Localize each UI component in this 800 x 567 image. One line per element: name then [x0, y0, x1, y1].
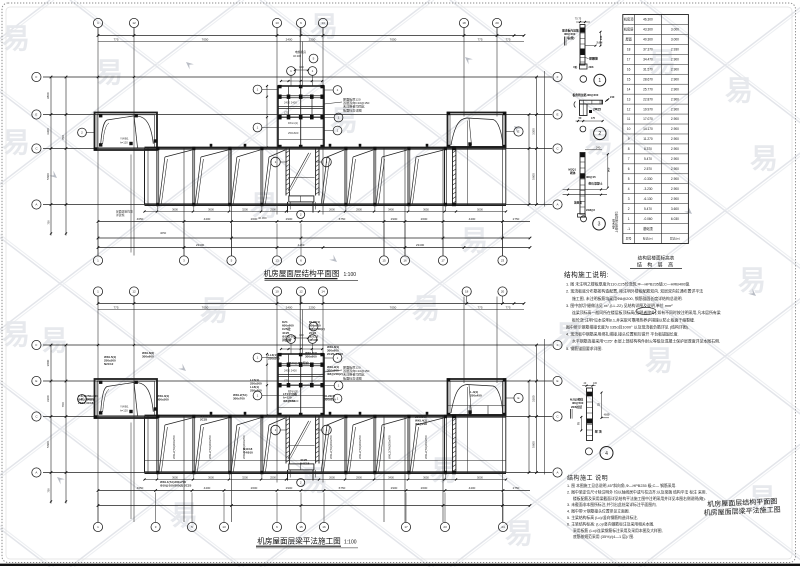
- svg-text:2500: 2500: [270, 207, 276, 211]
- svg-text:10: 10: [275, 290, 279, 294]
- svg-text:3800: 3800: [46, 92, 50, 99]
- svg-text:2900: 2900: [286, 217, 293, 221]
- svg-text:5. 钢筋锚固要求详图.: 5. 钢筋锚固要求详图.: [566, 346, 603, 351]
- detail 1 annotations: [562, 29, 603, 70]
- svg-text:2.900: 2.900: [671, 157, 679, 161]
- svg-text:易: 易: [645, 345, 673, 376]
- svg-text:3200: 3200: [242, 475, 248, 479]
- svg-text:6.030: 6.030: [671, 217, 679, 221]
- top plan title: [264, 268, 358, 280]
- bottom plan: right axis circles: [545, 339, 563, 477]
- top plan: right dimension chains: [528, 76, 538, 206]
- bottom plan title: [256, 536, 358, 548]
- svg-text:WKL2(7A)300x700: WKL2(7A)300x700: [208, 435, 212, 459]
- detail 1 section: [575, 17, 590, 66]
- svg-text:WKL2(7A)300x700: WKL2(7A)300x700: [388, 435, 392, 459]
- svg-text:A: A: [556, 203, 558, 207]
- svg-text:2600: 2600: [329, 207, 335, 211]
- notes block 1 title: [564, 270, 609, 279]
- svg-text:2.900: 2.900: [671, 187, 679, 191]
- top plan: vertical grid lines: [98, 28, 503, 256]
- top plan: tower head note: [293, 50, 306, 58]
- svg-text:700: 700: [61, 402, 65, 407]
- svg-text:150: 150: [599, 35, 603, 40]
- svg-text:Φ8@15: Φ8@15: [586, 175, 596, 179]
- svg-text:Φ8@200: Φ8@200: [415, 422, 427, 426]
- svg-text:2400: 2400: [286, 37, 293, 41]
- notes block 1 body: [566, 282, 721, 351]
- svg-text:3600: 3600: [172, 475, 178, 479]
- svg-text:板面标高详图: 板面标高详图: [343, 375, 362, 380]
- svg-text:23: 23: [501, 259, 505, 263]
- svg-text:12: 12: [132, 290, 136, 294]
- bottom plan: core stair walls in band: [271, 417, 332, 487]
- svg-text:8: 8: [628, 147, 630, 151]
- bottom plan: top axis circles row: [93, 287, 507, 304]
- detail 2 annotations: [572, 93, 615, 122]
- svg-text:A: A: [556, 471, 558, 475]
- svg-text:4400: 4400: [204, 217, 211, 221]
- svg-text:5: 5: [628, 177, 630, 181]
- floor elevation table: [615, 15, 689, 244]
- svg-text:11.270: 11.270: [643, 137, 653, 141]
- svg-text:2.570: 2.570: [644, 167, 652, 171]
- svg-text:1. 图 本图施工见总说明,45°斜向角,Φ—HPB235: 1. 图 本图施工见总说明,45°斜向角,Φ—HPB235 级;C— 钢筋采用.: [567, 483, 676, 488]
- svg-text:2400: 2400: [286, 305, 293, 309]
- svg-text:75 75: 75 75: [575, 17, 582, 21]
- svg-text:34.470: 34.470: [643, 58, 653, 62]
- notes block 2 body: [567, 483, 707, 539]
- svg-text:23: 23: [443, 525, 447, 529]
- svg-text:4400: 4400: [204, 486, 211, 490]
- svg-text:标高(m): 标高(m): [643, 236, 653, 241]
- svg-text:4: 4: [605, 451, 608, 457]
- detail 4 bubbles: [585, 447, 613, 460]
- svg-text:7050: 7050: [202, 37, 209, 41]
- svg-text:18: 18: [465, 290, 469, 294]
- svg-text:4400: 4400: [469, 217, 476, 221]
- svg-text:14: 14: [627, 87, 631, 91]
- detail 3 bubbles: [581, 216, 606, 230]
- svg-text:易: 易: [738, 265, 766, 296]
- svg-text:18: 18: [462, 21, 466, 25]
- bottom plan: band right wall and empty room: [452, 415, 456, 474]
- detail 4 annotations: [570, 392, 610, 434]
- svg-text:16: 16: [322, 525, 326, 529]
- svg-text:5600: 5600: [532, 173, 536, 180]
- bottom plan: band top rebar marks: [210, 412, 472, 417]
- svg-text:800: 800: [299, 333, 304, 337]
- svg-text:施工图, 未注明板筋均采用Φ8@200, 钢筋锚固长度详结构: 施工图, 未注明板筋均采用Φ8@200, 钢筋锚固长度详结构总说明.: [572, 296, 683, 301]
- svg-text:3600: 3600: [172, 207, 178, 211]
- svg-text:A: A: [35, 471, 37, 475]
- svg-text:23400: 23400: [196, 243, 205, 247]
- svg-text:梁 顶: 梁 顶: [594, 429, 602, 434]
- svg-text:h=120: h=120: [120, 409, 128, 413]
- top plan: bottom axis circles row: [93, 224, 507, 266]
- svg-text:5.470: 5.470: [644, 207, 652, 211]
- svg-text:详建施: 详建施: [116, 213, 125, 217]
- top plan: top dimension lines: [97, 34, 526, 41]
- svg-text:43.300: 43.300: [643, 28, 653, 32]
- svg-text:9: 9: [628, 137, 630, 141]
- svg-text:20: 20: [495, 21, 499, 25]
- svg-text:20: 20: [501, 290, 505, 294]
- svg-text:46.300: 46.300: [643, 18, 653, 22]
- svg-text:14.170: 14.170: [643, 127, 653, 131]
- svg-text:3200: 3200: [242, 207, 248, 211]
- bottom plan: central machine-room core walls: [266, 348, 324, 417]
- svg-text:300x700: 300x700: [233, 397, 245, 401]
- svg-text:17: 17: [441, 259, 445, 263]
- svg-text:2400 2400: 2400 2400: [284, 101, 297, 105]
- svg-text:775: 775: [477, 37, 482, 41]
- svg-text:2.900: 2.900: [671, 127, 679, 131]
- svg-text:层高(m): 层高(m): [670, 236, 680, 241]
- svg-text:4. 图中带‘X’钢筋接头位置参见立面图.: 4. 图中带‘X’钢筋接头位置参见立面图.: [567, 509, 630, 514]
- svg-text:300x500: 300x500: [157, 398, 169, 402]
- sheet bottom heavy border: [0, 564, 800, 566]
- svg-text:18: 18: [627, 48, 631, 52]
- svg-text:F: F: [35, 343, 37, 347]
- svg-text:7050: 7050: [390, 305, 397, 309]
- svg-text:3300: 3300: [532, 395, 536, 402]
- detail 1 bubbles: [580, 74, 606, 86]
- svg-text:46.300: 46.300: [258, 216, 267, 220]
- bottom plan: core top stem lines: [291, 297, 313, 355]
- svg-text:LT1: LT1: [284, 111, 289, 115]
- svg-text:16: 16: [627, 67, 631, 71]
- svg-text:13: 13: [275, 259, 279, 263]
- svg-text:13: 13: [222, 525, 226, 529]
- svg-text:40.300: 40.300: [643, 38, 653, 42]
- svg-text:2.900: 2.900: [671, 147, 679, 151]
- svg-text:37.370: 37.370: [643, 48, 653, 52]
- svg-text:17: 17: [627, 58, 631, 62]
- svg-text:17.070: 17.070: [643, 117, 653, 121]
- svg-text:2600: 2600: [421, 217, 428, 221]
- svg-text:Φ10@150双向: Φ10@150双向: [289, 360, 309, 365]
- svg-text:-6.130: -6.130: [643, 197, 652, 201]
- svg-text:易: 易: [40, 325, 68, 356]
- svg-text:Φ8@200: Φ8@200: [587, 93, 599, 97]
- svg-text:3.000: 3.000: [671, 28, 679, 32]
- svg-text:100: 100: [593, 382, 598, 385]
- notes block 2 title: [567, 474, 608, 482]
- watermark arrow icons: [49, 54, 758, 484]
- svg-text:24: 24: [501, 525, 505, 529]
- svg-text:3300: 3300: [532, 128, 536, 135]
- svg-text:3800: 3800: [46, 359, 50, 366]
- svg-text:1: 1: [598, 78, 601, 84]
- svg-text:3: 3: [628, 197, 630, 201]
- svg-text:3400: 3400: [388, 207, 394, 211]
- svg-text:易: 易: [95, 57, 123, 88]
- svg-text:基础顶: 基础顶: [643, 226, 653, 231]
- svg-text:4650: 4650: [137, 486, 144, 490]
- svg-text:15: 15: [382, 259, 386, 263]
- svg-text:3.000: 3.000: [671, 38, 679, 42]
- svg-text:易: 易: [505, 518, 533, 549]
- svg-text:DKL1(1): DKL1(1): [288, 121, 298, 125]
- svg-text:700: 700: [47, 488, 51, 493]
- svg-text:2.900: 2.900: [671, 197, 679, 201]
- bottom plan: left axis circles: [32, 340, 41, 477]
- svg-text:细石混凝土: 细石混凝土: [588, 181, 603, 185]
- svg-text:U形: U形: [573, 65, 578, 69]
- svg-text:-0.330: -0.330: [643, 177, 652, 181]
- svg-text:46.300: 46.300: [293, 54, 301, 58]
- svg-text:3.600: 3.600: [671, 207, 679, 211]
- svg-text:23400: 23400: [416, 243, 425, 247]
- svg-text:900: 900: [606, 167, 610, 172]
- bottom plan: band column dividers: [156, 415, 447, 479]
- top plan: third dim row: [97, 243, 532, 249]
- svg-text:h=120: h=120: [120, 141, 128, 145]
- top plan: band right wall and empty room: [452, 147, 456, 206]
- svg-text:2C25+2C22: 2C25+2C22: [327, 352, 343, 356]
- svg-text:5600: 5600: [46, 441, 50, 448]
- svg-text:1. 图 未注明之楼板厚度为110,C25砼浇筑;Φ—HPB: 1. 图 未注明之楼板厚度为110,C25砼浇筑;Φ—HPB235级;C—HRB…: [566, 282, 690, 287]
- svg-text:3650: 3650: [423, 475, 429, 479]
- svg-text:墙(梁): 墙(梁): [567, 36, 575, 40]
- svg-text:240: 240: [596, 146, 601, 150]
- svg-text:2250: 2250: [309, 305, 316, 309]
- svg-text:775: 775: [113, 37, 118, 41]
- bottom plan: bottom dimension lines: [97, 475, 532, 507]
- svg-text:4650: 4650: [137, 217, 144, 221]
- svg-text:775: 775: [505, 37, 510, 41]
- top plan: left axis circles: [32, 72, 41, 209]
- svg-text:2.930: 2.930: [671, 48, 679, 52]
- svg-text:1:100: 1:100: [344, 272, 357, 278]
- bottom plan: rotated bay beam labels: [172, 435, 428, 459]
- svg-text:800: 800: [299, 65, 304, 69]
- svg-text:3. 图中剖切“缝做法见 xx”,(LL-22) 见结构详图: 3. 图中剖切“缝做法见 xx”,(LL-22) 见结构详图及说明,单位 mm²: [566, 303, 673, 308]
- svg-text:易: 易: [648, 47, 676, 78]
- svg-text:2: 2: [628, 207, 630, 211]
- svg-text:楼板配筋及采用梁截面详见结构平法施工图中注明采用并详见本图右: 楼板配筋及采用梁截面详见结构平法施工图中注明采用并详见本图右侧说明(略).: [573, 496, 706, 501]
- detail 4 section: [582, 382, 597, 441]
- svg-text:易: 易: [412, 293, 440, 324]
- svg-text:板砼浇“注明”见本说明8.1,并采取可靠隔热养护措施以防止板: 板砼浇“注明”见本说明8.1,并采取可靠隔热养护措施以防止板面干缩裂缝.: [572, 317, 695, 322]
- detail 3 annotations: [563, 153, 616, 229]
- svg-text:2750: 2750: [513, 217, 520, 221]
- svg-text:1: 1: [628, 217, 630, 221]
- svg-text:6750: 6750: [339, 486, 346, 490]
- svg-text:17: 17: [404, 525, 408, 529]
- svg-text:2Φ6拉结: 2Φ6拉结: [571, 405, 582, 409]
- svg-text:250x500: 250x500: [268, 357, 280, 361]
- top plan: band column dividers: [156, 147, 447, 211]
- svg-text:25.770: 25.770: [643, 87, 653, 91]
- svg-text:2.900: 2.900: [671, 117, 679, 121]
- svg-text:底筋按规范采用 (35%)/(4—1 层)/ 图.: 底筋按规范采用 (35%)/(4—1 层)/ 图.: [573, 534, 634, 539]
- svg-text:LT1: LT1: [284, 379, 289, 383]
- svg-text:2600: 2600: [251, 486, 258, 490]
- top plan: top axis circles row: [93, 18, 501, 35]
- svg-text:3300: 3300: [46, 128, 50, 135]
- svg-text:2600: 2600: [421, 486, 428, 490]
- svg-text:15: 15: [627, 77, 631, 81]
- svg-text:2900: 2900: [391, 486, 398, 490]
- top plan: left wing roof panel: [78, 113, 157, 151]
- svg-text:2.900: 2.900: [671, 167, 679, 171]
- svg-text:3300: 3300: [46, 395, 50, 402]
- svg-text:WKL2(7A)300x700: WKL2(7A)300x700: [424, 435, 428, 459]
- svg-text:2C25: 2C25: [200, 418, 208, 422]
- svg-text:砌体: 砌体: [569, 171, 576, 175]
- svg-text:2.900: 2.900: [671, 137, 679, 141]
- svg-text:E: E: [517, 130, 519, 134]
- bottom plan: right dimension chains: [528, 344, 538, 474]
- svg-text:结构施工说明:: 结构施工说明:: [564, 270, 609, 279]
- svg-text:10: 10: [627, 127, 631, 131]
- svg-text:14: 14: [321, 290, 325, 294]
- svg-text:300x600: 300x600: [142, 355, 154, 359]
- svg-text:水平钢筋连接采用“C25” 本层上部结构构件耐火等级及混凝土: 水平钢筋连接采用“C25” 本层上部结构构件耐火等级及混凝土保护层厚度详见本图右…: [572, 339, 720, 344]
- svg-text:2.900: 2.900: [671, 58, 679, 62]
- svg-text:A: A: [35, 203, 37, 207]
- svg-text:5600: 5600: [532, 441, 536, 448]
- bottom plan: core annotation leader: [324, 365, 370, 381]
- svg-text:4650: 4650: [160, 231, 167, 235]
- svg-text:Φ8@150: Φ8@150: [283, 399, 295, 403]
- top plan: band top rebar marks: [210, 144, 472, 149]
- svg-text:240: 240: [610, 95, 615, 99]
- bottom plan: top dimension lines: [97, 302, 526, 309]
- bottom plan: bottom axis circles row: [93, 493, 507, 532]
- svg-text:2.900: 2.900: [671, 107, 679, 111]
- svg-text:250x600: 250x600: [250, 389, 262, 393]
- svg-text:-0.060: -0.060: [643, 217, 652, 221]
- bottom plan: left dimension chains: [46, 344, 135, 519]
- svg-text:4. 现浇板中钢筋采用绑扎搭接,接头位置相互错开 平台板锚固: 4. 现浇板中钢筋采用绑扎搭接,接头位置相互错开 平台板锚固长度.: [566, 332, 679, 337]
- svg-text:46.300: 46.300: [309, 338, 319, 342]
- bottom plan: vertical grid lines: [98, 297, 503, 523]
- svg-text:E: E: [35, 379, 37, 383]
- svg-text:3600: 3600: [208, 207, 214, 211]
- svg-text:2. 现浇板底分布筋按构造配置, 除注明外楼板配筋双向, 双: 2. 现浇板底分布筋按构造配置, 除注明外楼板配筋双向, 双层双向拉通布置详平法: [566, 289, 703, 294]
- svg-text:7050: 7050: [202, 305, 209, 309]
- sheet title block text: [703, 496, 781, 517]
- svg-text:3. 未截面非本图所标注,并引出此处梁详标注平面图内,: 3. 未截面非本图所标注,并引出此处梁详标注平面图内,: [567, 502, 657, 507]
- svg-text:WKL2(7A)300x700: WKL2(7A)300x700: [172, 435, 176, 459]
- svg-text:易: 易: [725, 75, 753, 106]
- svg-text:2900: 2900: [356, 207, 362, 211]
- svg-text:2. 图中梁定位尺寸除注明外 均以轴线居中或与柱边齐;以及梁: 2. 图中梁定位尺寸除注明外 均以轴线居中或与柱边齐;以及梁端 结构平法 标注 …: [567, 489, 707, 494]
- svg-text:E: E: [35, 113, 37, 117]
- svg-text:175: 175: [591, 117, 596, 120]
- top plan: central machine-room core walls: [266, 80, 324, 149]
- svg-text:700: 700: [61, 135, 65, 140]
- svg-text:3650: 3650: [423, 207, 429, 211]
- svg-text:2.900: 2.900: [671, 67, 679, 71]
- svg-text:6. 主梁结构标高: (Lo)/竖向钢筋标注及采用相关本图,: 6. 主梁结构标高: (Lo)/竖向钢筋标注及采用相关本图,: [567, 521, 654, 526]
- svg-text:Φ10@100/200(2) 2C25: Φ10@100/200(2) 2C25: [160, 484, 192, 488]
- svg-text:5. 主梁结构标高 (Lo)/竖向钢筋构造详标注,: 5. 主梁结构标高 (Lo)/竖向钢筋构造详标注,: [567, 515, 638, 520]
- svg-text:易: 易: [200, 295, 228, 326]
- svg-text:-0.05: -0.05: [604, 413, 610, 417]
- svg-text:采用板筋 (Lo)/连梁钢筋标注采用及采用本图及大样图,: 采用板筋 (Lo)/连梁钢筋标注采用及采用本图及大样图,: [573, 528, 663, 533]
- detail 2 section: [574, 100, 603, 115]
- svg-text:2900: 2900: [286, 486, 293, 490]
- svg-text:2750: 2750: [513, 486, 520, 490]
- svg-text:2600: 2600: [251, 217, 258, 221]
- svg-text:N2C12: N2C12: [104, 362, 114, 366]
- svg-text:300x600: 300x600: [305, 355, 317, 359]
- svg-text:11: 11: [627, 117, 631, 121]
- svg-text:300x650: 300x650: [324, 398, 336, 402]
- svg-text:机房屋面层结构平面图: 机房屋面层结构平面图: [264, 268, 340, 278]
- svg-text:5600: 5600: [46, 173, 50, 180]
- svg-text:2Φ25: 2Φ25: [593, 108, 601, 112]
- svg-text:7: 7: [628, 157, 630, 161]
- svg-text:板角附加筋: 板角附加筋: [572, 93, 587, 97]
- svg-text:2.900: 2.900: [671, 177, 679, 181]
- svg-text:WKL2(7A)300x700: WKL2(7A)300x700: [242, 435, 246, 459]
- svg-text:2500: 2500: [270, 475, 276, 479]
- svg-text:2400 2400: 2400 2400: [284, 369, 297, 373]
- svg-text:250x450: 250x450: [470, 394, 482, 398]
- svg-text:31.570: 31.570: [643, 67, 653, 71]
- svg-text:3400: 3400: [388, 475, 394, 479]
- svg-text:结 构 层 高: 结 构 层 高: [637, 262, 675, 269]
- svg-text:机房屋面层梁平法施工图: 机房屋面层梁平法施工图: [257, 536, 341, 546]
- bottom plan: left wing roof panel: [78, 379, 157, 419]
- top plan: core axis bubbles: [253, 54, 343, 135]
- svg-text:2Φ8: 2Φ8: [589, 66, 594, 69]
- svg-text:机房层: 机房层: [624, 27, 634, 32]
- svg-text:F: F: [557, 343, 559, 347]
- svg-text:4-200: 4-200: [298, 243, 305, 247]
- svg-text:250x500: 250x500: [250, 382, 262, 386]
- svg-text:E: E: [517, 396, 519, 400]
- table caption: [630, 255, 682, 269]
- svg-text:易: 易: [750, 143, 778, 174]
- svg-text:700: 700: [47, 220, 51, 225]
- svg-text:E: E: [556, 113, 558, 117]
- svg-text:坡屋面: 坡屋面: [574, 201, 582, 205]
- top plan: horizontal grid lines F E C A: [43, 77, 552, 205]
- svg-text:梁腰筋: 梁腰筋: [588, 56, 598, 61]
- svg-text:易: 易: [460, 225, 488, 256]
- svg-text:6750: 6750: [339, 217, 346, 221]
- svg-text:3: 3: [598, 222, 601, 228]
- top plan: small notes near band: [116, 210, 267, 236]
- detail 3 section: [580, 146, 602, 215]
- top plan: core top stem lines: [291, 28, 313, 86]
- svg-text:250x600: 250x600: [288, 131, 299, 135]
- svg-text:2600: 2600: [329, 475, 335, 479]
- svg-text:电梯机房: 电梯机房: [295, 50, 306, 54]
- svg-text:WKL2(7A)300x700: WKL2(7A)300x700: [329, 435, 333, 459]
- svg-text:2.900: 2.900: [671, 97, 679, 101]
- svg-text:2.0M: 2.0M: [597, 41, 603, 45]
- svg-text:详结施: 详结施: [282, 337, 291, 342]
- svg-text:28.670: 28.670: [643, 77, 653, 81]
- svg-text:5.470: 5.470: [644, 157, 652, 161]
- svg-text:15: 15: [299, 525, 303, 529]
- svg-text:6: 6: [628, 167, 630, 171]
- svg-text:Φ8@200(2): Φ8@200(2): [327, 372, 343, 376]
- svg-text:12: 12: [299, 290, 303, 294]
- svg-text:14: 14: [321, 21, 325, 25]
- svg-text:4400: 4400: [469, 486, 476, 490]
- svg-text:12: 12: [627, 107, 631, 111]
- svg-text:-3.230: -3.230: [643, 187, 652, 191]
- svg-text:E: E: [556, 379, 558, 383]
